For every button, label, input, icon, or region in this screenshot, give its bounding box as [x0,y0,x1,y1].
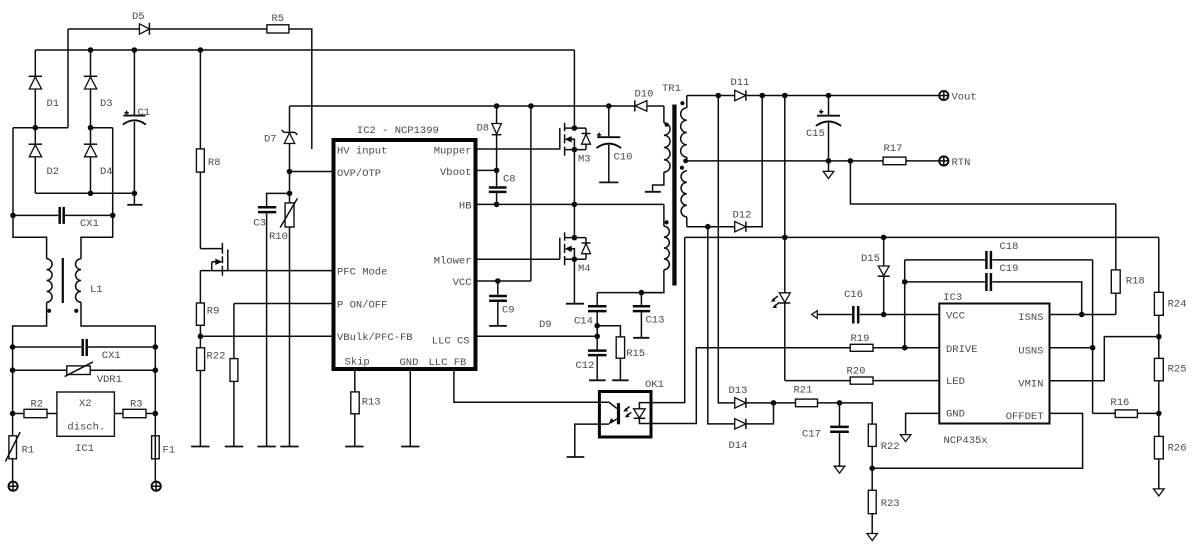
ground C17 arrow [834,466,845,473]
svg-text:TR1: TR1 [662,83,681,95]
svg-text:R20: R20 [847,366,866,378]
wire ISNS pin [1050,314,1116,316]
svg-text:D11: D11 [731,77,750,89]
resistor R1 [12,414,14,436]
node USNS [1090,345,1096,351]
svg-text:D12: D12 [733,210,752,222]
wire USNS pin [1050,347,1093,349]
svg-text:C12: C12 [576,360,595,372]
wire M3 source to M4 drain [573,150,575,238]
node CX1 right [110,213,116,219]
svg-text:C15: C15 [806,128,825,140]
wire riser D13 [718,96,734,403]
svg-text:HV input: HV input [337,145,387,157]
node C8 bottom [494,202,500,208]
svg-text:IC1: IC1 [75,443,94,455]
node D13/D14 [771,400,777,406]
node R15 tap [594,323,600,329]
ground R10 [280,446,298,448]
svg-text:D14: D14 [729,440,748,452]
ground R9 chain [191,446,209,448]
diode D8 [496,106,498,124]
wire AC node left [13,127,68,129]
ground M4 [566,303,584,305]
svg-text:disch.: disch. [67,422,105,434]
transistor Q1 PFC MOSFET [200,248,221,250]
svg-text:R16: R16 [1110,397,1129,409]
wire L1 right bend [81,215,113,258]
node center tap [683,159,688,164]
node VCC riser top [528,103,534,109]
svg-text:C8: C8 [503,174,516,186]
wire IC3 GND [906,413,940,434]
svg-text:R26: R26 [1168,443,1187,455]
wire Mlower pin [478,258,560,260]
svg-text:R17: R17 [884,143,903,155]
svg-text:D2: D2 [47,166,60,178]
ground R15 [612,379,628,381]
wire OVP/OTP pin [290,171,332,173]
capacitor C15 [828,96,830,116]
svg-text:C14: C14 [574,316,593,328]
node D12 return [759,93,765,99]
svg-text:M4: M4 [578,263,591,275]
wire D12 up to rail [746,96,762,227]
svg-text:VBulk/PFC-FB: VBulk/PFC-FB [337,332,413,344]
terminal PE right [152,482,161,491]
svg-text:OFFDET: OFFDET [1006,411,1044,423]
ground R26 arrow [1154,489,1165,496]
wire D11 to Vout [746,95,939,97]
node R3 right [153,411,159,417]
transformer TR1 core [672,105,676,286]
wire center tap [687,160,883,162]
node D15 top [881,235,887,241]
ground C9 [489,325,507,327]
svg-text:RTN: RTN [952,157,971,169]
svg-text:M3: M3 [578,154,591,166]
svg-text:R3: R3 [130,399,143,411]
svg-text:USNS: USNS [1018,345,1043,357]
capacitor C1 [133,50,135,115]
TR1 primary winding [663,204,665,226]
node D3-D4 [88,125,94,131]
resistor R3 [114,413,123,415]
resistor R16 [1115,410,1137,418]
diode D15 [883,237,885,266]
wire R21 to R22 [818,403,873,424]
capacitor C12 [588,349,607,352]
wire aux rail y106 [290,105,635,107]
node R22/R23 [869,466,875,472]
inductor L1 right winding [76,259,81,303]
svg-text:R21: R21 [794,385,813,397]
svg-text:IC2 - NCP1399: IC2 - NCP1399 [357,125,439,137]
ground C10 [599,181,618,183]
capacitor C19 [905,281,985,283]
wire bridge bottom [35,192,134,194]
svg-text:C16: C16 [844,289,863,301]
capacitor C14 [596,293,598,306]
capacitor C3 [258,206,276,209]
node M3 drain [572,125,578,131]
wire riser D14 [708,227,735,424]
resistor R22 [197,348,205,371]
svg-text:D5: D5 [132,11,145,23]
node CX1 left [10,213,16,219]
wire CX1b row [13,346,156,348]
node resonant top [639,290,645,296]
L1 polarity dots [47,309,51,313]
wire RTN to divider rail [850,161,1115,204]
node R2 left [10,411,16,417]
wire bulk to M3 drain [573,50,575,128]
svg-text:IC3: IC3 [943,292,962,304]
ground R12 [225,446,243,448]
svg-text:D1: D1 [47,98,60,110]
wire D12 row [687,226,735,228]
svg-text:VMIN: VMIN [1018,379,1043,391]
wire R20 to LED pin [873,380,939,382]
wire L1 bottom left [13,302,47,347]
resistor R19 [850,344,873,351]
wire opto emitter to ground [575,424,600,457]
svg-text:D15: D15 [861,253,880,265]
svg-text:R10: R10 [269,231,288,243]
node D8 top [494,103,500,109]
zener D7 [289,106,291,132]
node C19 left [902,279,908,285]
diode D2 [34,128,36,194]
node HB half-bridge [572,202,578,208]
transistor M3 [559,128,561,150]
svg-text:HB: HB [459,201,472,213]
fuse F1 [154,414,156,482]
svg-text:Vboot: Vboot [440,167,472,179]
wire OFFDET R16 [1093,412,1116,414]
svg-text:OVP/OTP: OVP/OTP [337,168,381,180]
node Vout sense [782,93,788,99]
node R24/R25 [1156,334,1162,340]
diode D14 [735,419,746,429]
wire PFC Mode pin [228,270,332,272]
wire opto cathode to R19 [651,348,850,424]
svg-text:LED: LED [946,376,965,388]
wire Mupper pin [478,148,560,150]
terminal PE left [9,482,18,491]
node CX1b left [10,344,16,350]
svg-text:Vout: Vout [952,92,977,104]
wire CX1 top row [13,214,113,216]
TR1 aux winding [663,106,665,123]
svg-text:NCP435x: NCP435x [944,435,988,447]
svg-text:P ON/OFF: P ON/OFF [337,300,387,312]
capacitor CX1 second [81,339,84,356]
thermistor R10 [285,203,294,227]
node C1 bottom [132,191,138,197]
node VCC IC3 [881,312,887,318]
svg-text:R22: R22 [881,441,900,453]
svg-text:D3: D3 [100,98,113,110]
node OVP [287,169,293,175]
ground C3 [257,446,275,448]
svg-text:LLC FB: LLC FB [429,357,467,369]
node M4 drain [572,235,578,241]
svg-text:R19: R19 [851,333,870,345]
resistor R17 [883,157,906,165]
node D4 bottom [88,191,94,197]
node M4 source [572,256,578,262]
wire D13 to R21 [746,402,796,404]
diode D3 [90,50,92,128]
wire C3 branch [267,193,290,206]
svg-text:D4: D4 [100,166,113,178]
svg-text:R1: R1 [22,445,35,457]
svg-text:D9: D9 [539,319,552,331]
wire feedback top [685,236,1159,238]
wire M4 source down [573,259,575,303]
capacitor C17 [839,403,841,426]
wire left rail upper [12,128,14,216]
wire OFFDET loop [872,413,1082,468]
inductor L1 left winding [47,259,52,303]
svg-text:Mlower: Mlower [434,255,472,267]
TR1 secondary upper [686,96,688,108]
svg-text:R25: R25 [1168,364,1187,376]
svg-text:ISNS: ISNS [1018,312,1043,324]
svg-text:D7: D7 [264,134,277,146]
svg-text:C1: C1 [138,107,151,119]
ground C12 [589,379,606,381]
capacitor C10 [608,106,610,136]
node VCC [495,278,501,284]
wire VCC pin [478,280,531,282]
terminal Vout [939,91,948,100]
resistor R5 [267,25,289,33]
wire HB pin [478,203,664,205]
svg-text:R8: R8 [208,157,221,169]
capacitor C8 [496,170,498,186]
svg-text:GND: GND [946,409,965,421]
svg-text:LLC CS: LLC CS [432,335,470,347]
wire AC node right [91,127,113,129]
wire R5 to HV corner [289,29,312,149]
capacitor C13 [640,293,642,306]
svg-text:R22: R22 [207,351,226,363]
svg-text:VDR1: VDR1 [97,374,122,386]
resistor R25 [1154,358,1163,380]
node R8 top [198,47,204,53]
node RTN branch [848,158,854,164]
wire VCC riser [530,106,532,281]
capacitor C16 [852,306,855,324]
capacitor C18 [904,260,906,348]
svg-text:R2: R2 [31,399,44,411]
wire VMIN pin [1050,337,1159,381]
svg-text:VCC: VCC [946,311,965,323]
node ISNS/C19 [1079,312,1085,318]
wire IC2 GND pin [409,369,411,447]
svg-text:R9: R9 [207,306,220,318]
capacitor CX1 [58,207,61,224]
svg-text:C13: C13 [646,315,665,327]
resistor R12 unlabeled [233,304,235,359]
ground aux [645,191,661,193]
svg-text:D10: D10 [635,89,654,101]
ground IC3 arrow [900,435,911,442]
svg-text:D8: D8 [477,123,490,135]
diode D12 [735,222,746,232]
wire bulk rail y50 [35,49,574,51]
svg-text:OK1: OK1 [645,379,664,391]
svg-text:CX1: CX1 [80,218,99,230]
wire D5 to R5 [149,28,267,30]
IC2 controller box [334,140,476,369]
resistor R9 [199,271,201,303]
svg-text:R13: R13 [362,397,381,409]
node x718 top [716,93,722,99]
diode D11 [735,90,746,100]
svg-text:C18: C18 [1000,241,1019,253]
wire top AC to D5 [68,28,139,30]
node M3 source [572,147,578,153]
svg-text:C9: C9 [502,305,515,317]
resistor R15 [597,326,620,337]
node C3 branch [287,191,293,197]
wire right rail lower [154,347,156,414]
terminal RTN [939,156,948,165]
ground C15 arrow [828,161,830,171]
wire Vboot pin [478,169,497,171]
wire R19 to DRIVE [873,347,939,349]
wire resonant node [597,292,664,294]
wire LED to R20 [785,380,850,382]
svg-text:X2: X2 [79,398,92,410]
diode D1 [34,50,36,128]
node DRIVE [902,345,908,351]
svg-text:C19: C19 [1000,263,1019,275]
wire C18 right riser [1092,260,1094,414]
wire opto anode riser [651,237,685,402]
ground IC2 [401,446,419,448]
resistor R26 [1154,436,1163,459]
terminal VCC arrow [812,311,818,319]
node D3 top [88,47,94,53]
wire LLC CS pin [478,335,598,337]
svg-text:PFC Mode: PFC Mode [337,267,387,279]
resistor R21 [796,399,818,407]
resistor R23 [868,490,876,513]
svg-text:R5: R5 [272,13,285,25]
resistor R8 [199,50,201,149]
svg-text:C3: C3 [253,218,266,230]
wire D14 join [746,403,774,424]
node CX1b right [153,344,159,350]
wire L1 left bend [13,215,47,258]
svg-text:Mupper: Mupper [434,145,472,157]
svg-text:VCC: VCC [453,277,472,289]
ground R13 [345,446,363,448]
resistor R20 [850,377,873,384]
node C1 top [132,47,138,53]
capacitor C9 [497,281,499,295]
ground C13 [633,337,649,339]
node C15 bottom [826,158,832,164]
node D14 riser top [705,224,711,230]
varistor VDR1 [13,369,156,371]
IC1 X2 discharge box [57,392,115,436]
IC3 controller box [939,304,1049,424]
node VBulk [198,334,204,340]
wire right drop [112,128,114,216]
resistor R18 [1115,204,1117,270]
node LED branch [782,235,788,241]
node D1-D2 [33,125,39,131]
wire L1 bottom right [81,302,155,347]
resistor R24 [1158,237,1160,292]
node C10 top [606,103,612,109]
node C17 [837,400,843,406]
svg-text:R24: R24 [1168,299,1187,311]
diode D10 [634,100,636,111]
ground R23 arrow [867,534,878,541]
svg-text:F1: F1 [163,445,176,457]
wire secondary top rail [687,95,735,97]
svg-text:R23: R23 [881,498,900,510]
svg-text:C17: C17 [802,429,821,441]
diode D13 [735,398,746,408]
svg-text:D13: D13 [729,385,748,397]
svg-text:L1: L1 [90,284,103,296]
wire LLC FB to opto [454,369,600,402]
wire AC riser [67,29,69,128]
svg-text:Skip: Skip [345,357,370,369]
diode D4 [90,128,92,194]
wire VBulk/PFC-FB pin [200,335,331,337]
resistor R22 sec [868,424,876,446]
LED D16 [784,96,786,293]
svg-text:CX1: CX1 [102,350,121,362]
svg-text:R15: R15 [626,348,645,360]
ground C1 [133,193,135,204]
svg-text:GND: GND [400,357,419,369]
TR1 secondary lower [680,166,684,170]
optocoupler OK1 [599,392,651,438]
node Vboot [494,168,500,174]
wire left rail lower [12,347,14,414]
node LLC CS tap [594,334,600,340]
svg-text:C10: C10 [614,152,633,164]
resistor R13 [354,369,356,392]
ground opto [567,456,585,458]
wire to C16 [817,314,852,316]
wire C16 to VCC pin [860,314,940,316]
node R25/R16 [1156,411,1162,417]
transistor M4 [559,238,561,260]
inductor L1 core [62,258,64,303]
node C15 top [826,93,832,99]
resistor R2 [13,413,24,415]
diode D5 [139,24,149,34]
svg-text:DRIVE: DRIVE [946,344,978,356]
svg-text:R18: R18 [1126,276,1145,288]
wire P ON/OFF pin [234,303,332,305]
